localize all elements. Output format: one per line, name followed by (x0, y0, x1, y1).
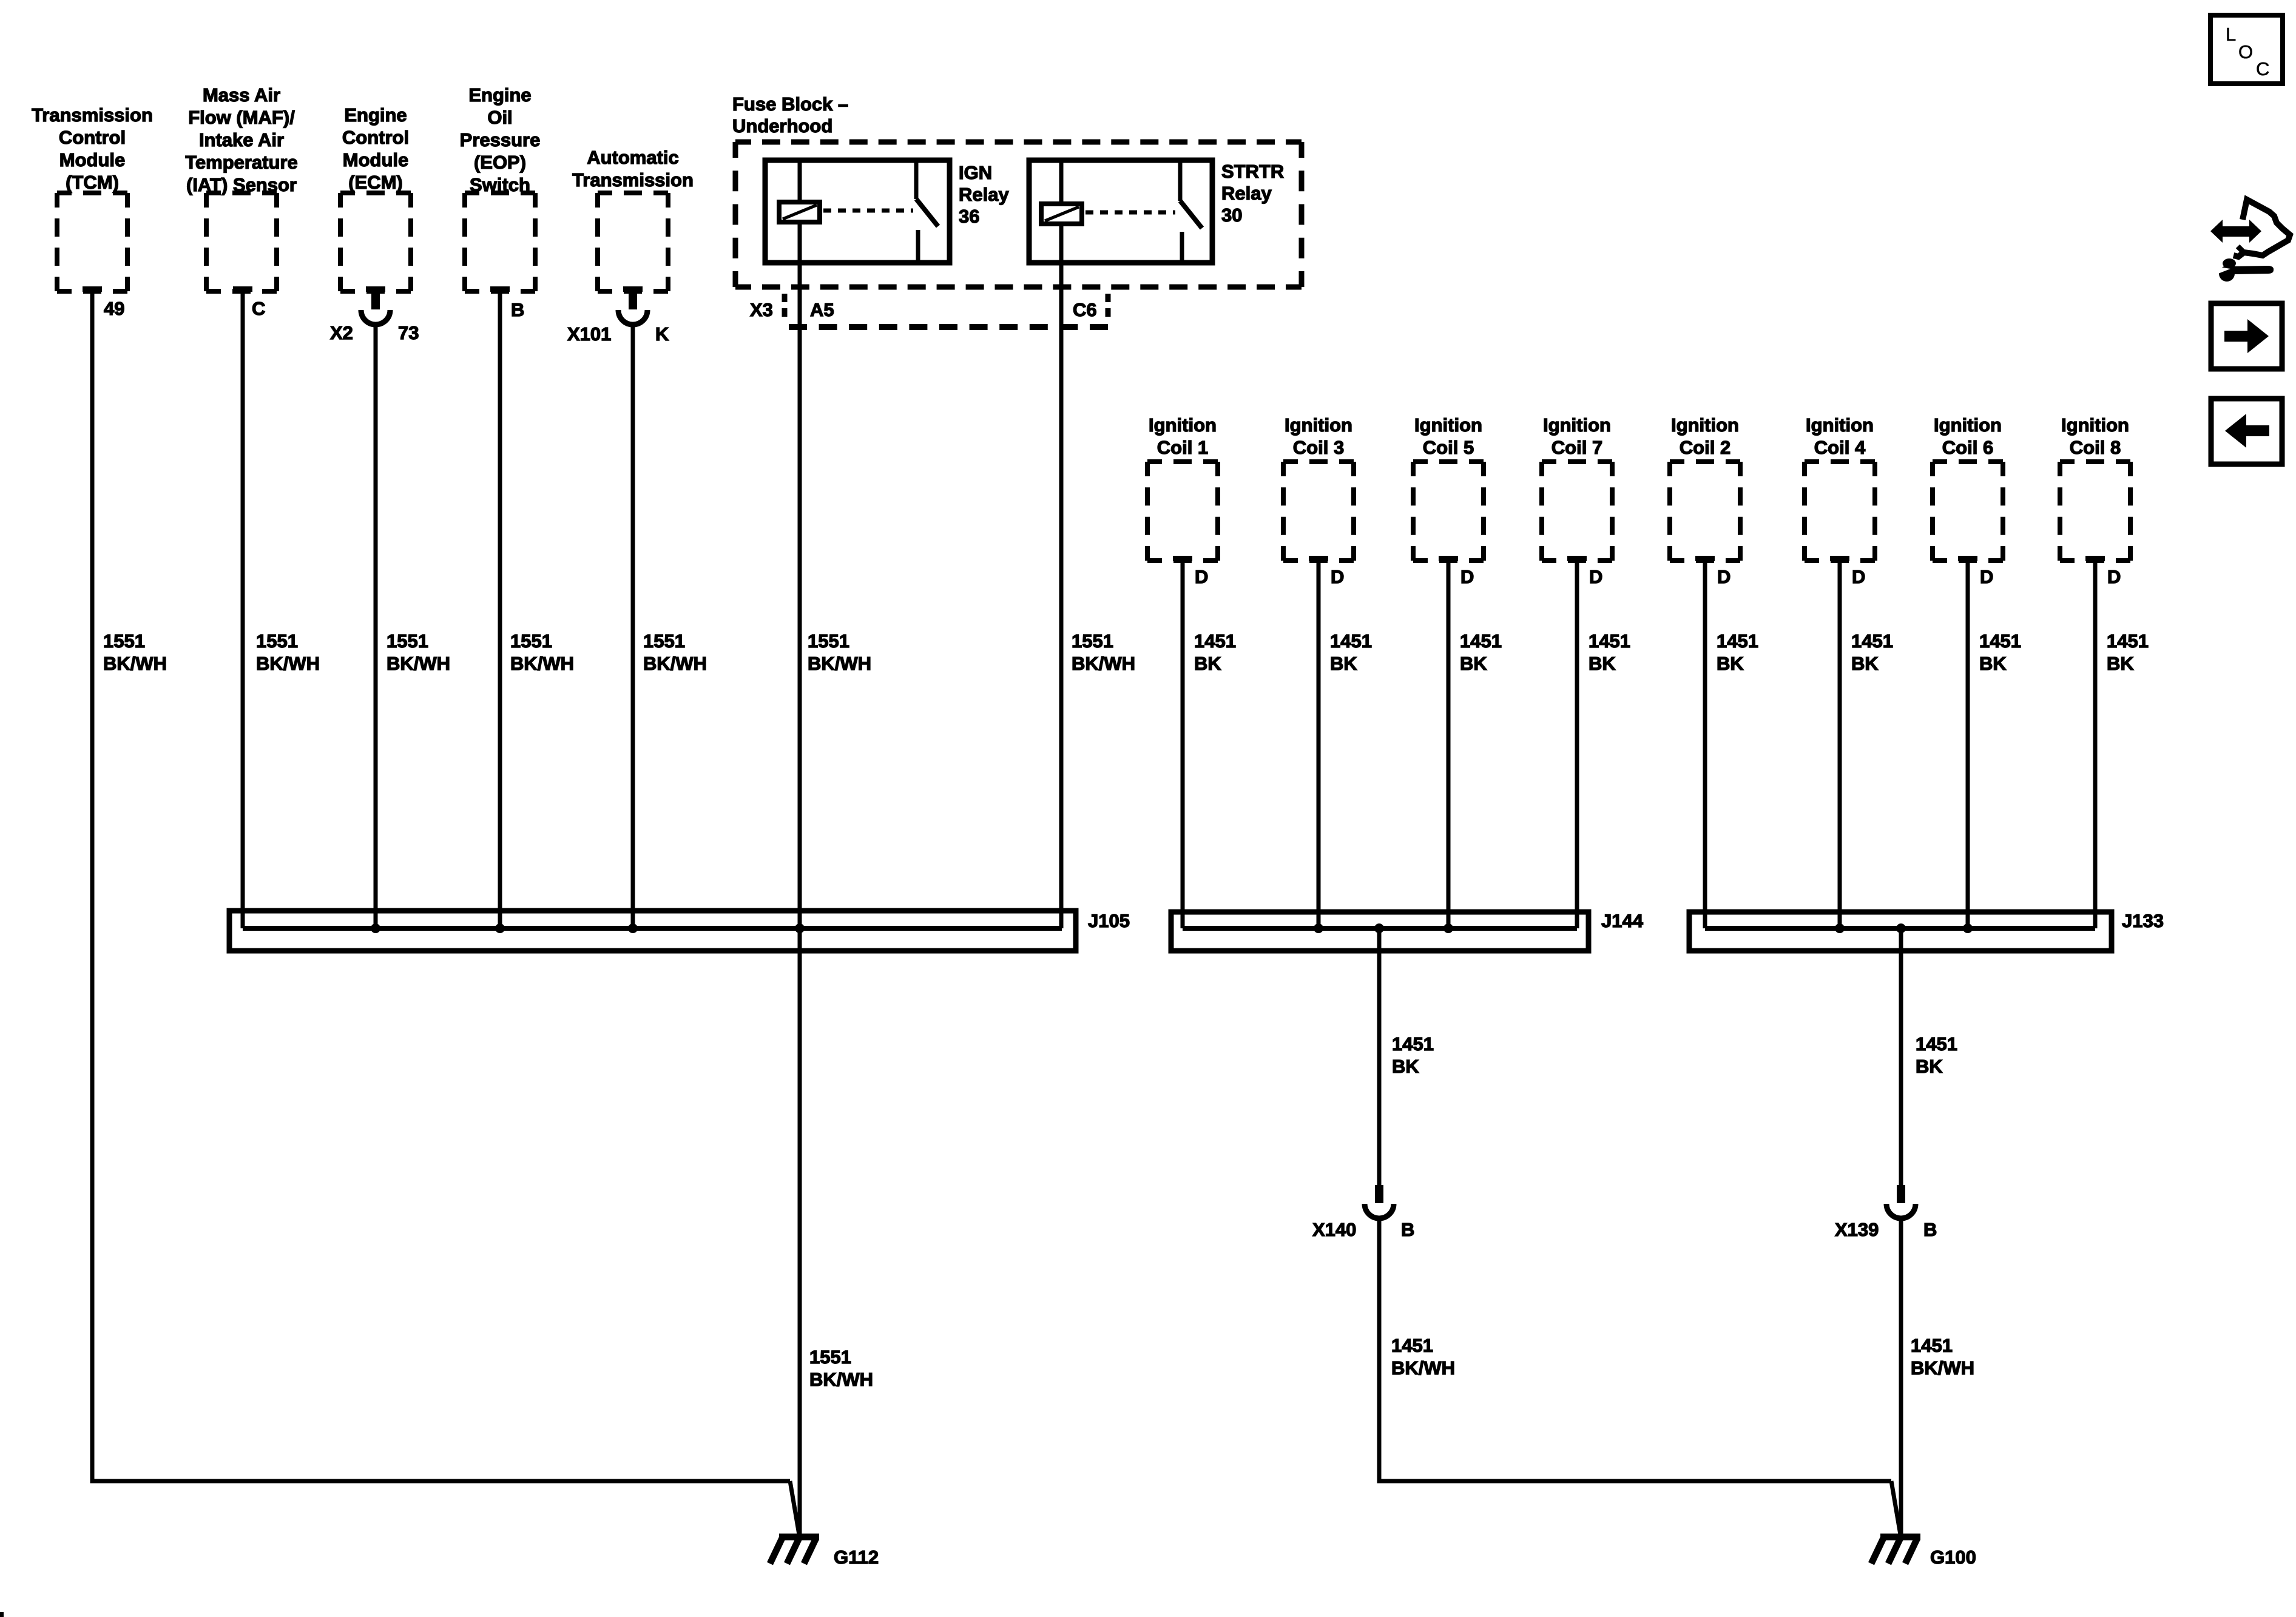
wire AT X101-K to J105 (1551 BK/WH) (631, 325, 635, 928)
svg-text:Underhood: Underhood (732, 115, 832, 137)
wire MAF pin C to J105 (1551 BK/WH) (241, 291, 245, 928)
svg-text:1551: 1551 (510, 630, 552, 652)
Ignition Coil 8 pin D (2085, 556, 2105, 561)
svg-text:K: K (655, 323, 669, 345)
wire Ignition Coil 5 pin D to bus (1451 BK) (1447, 561, 1451, 928)
svg-text:Engine: Engine (344, 104, 407, 126)
svg-text:Ignition: Ignition (1149, 414, 1217, 436)
STRTR relay coil (1041, 204, 1082, 224)
svg-text:G112: G112 (834, 1547, 879, 1568)
connector X139 pin B (1835, 1185, 1937, 1240)
stray mark bottom left (0, 1612, 4, 1617)
svg-text:C6: C6 (1073, 299, 1097, 320)
Ignition Coil 1 box (1149, 414, 1217, 458)
Ignition Coil 8 box (2061, 414, 2129, 458)
svg-text:J105: J105 (1088, 910, 1130, 931)
svg-text:Temperature: Temperature (185, 152, 298, 173)
AT dashed box (598, 193, 668, 291)
svg-text:Mass Air: Mass Air (203, 84, 280, 106)
svg-text:X3: X3 (750, 299, 773, 320)
svg-text:(ECM): (ECM) (348, 172, 403, 193)
svg-text:O: O (2238, 41, 2253, 62)
wire J144 to X140 (1451 BK) (1377, 928, 1382, 1185)
junction dots J144 (1314, 923, 1323, 933)
ECM pin bar (366, 286, 385, 292)
svg-text:30: 30 (1221, 204, 1242, 226)
back arrow icon (2211, 399, 2282, 464)
svg-text:BK: BK (1916, 1056, 1943, 1077)
svg-text:BK/WH: BK/WH (510, 653, 574, 674)
wire STRTR relay pin C6 to J105 (1551 BK/WH) (1059, 224, 1064, 928)
svg-text:C: C (2256, 58, 2269, 79)
Automatic Transmission box (572, 147, 694, 191)
svg-text:X101: X101 (567, 323, 611, 345)
MAF dashed box (206, 193, 277, 291)
wire Ignition Coil 8 pin D to bus (1451 BK) (2093, 561, 2098, 928)
forward arrow icon (2211, 303, 2282, 369)
svg-text:BK/WH: BK/WH (1072, 653, 1135, 674)
STRTR relay switch (1178, 160, 1183, 201)
svg-text:D: D (2107, 566, 2121, 587)
svg-text:BK: BK (1460, 653, 1487, 674)
Ignition Coil 6 box (1934, 414, 2002, 458)
Ignition Coil 3 pin D (1309, 556, 1328, 561)
svg-text:BK: BK (1851, 653, 1879, 674)
svg-text:Coil 1: Coil 1 (1157, 437, 1208, 458)
svg-text:B: B (511, 299, 524, 320)
svg-text:B: B (1923, 1219, 1937, 1240)
svg-text:Transmission: Transmission (572, 169, 694, 191)
STRTR relay coil feed (1059, 160, 1064, 204)
wire Ignition Coil 2 pin D to bus (1451 BK) (1703, 561, 1707, 928)
svg-text:X139: X139 (1835, 1219, 1879, 1240)
EOP pin B (490, 286, 510, 292)
hand outline (2234, 200, 2290, 257)
svg-text:1451: 1451 (1916, 1033, 1957, 1055)
svg-text:BK/WH: BK/WH (103, 653, 167, 674)
svg-text:X2: X2 (330, 322, 353, 343)
STRTR relay actuation dashed link (1086, 211, 1175, 215)
svg-text:Pressure: Pressure (460, 129, 541, 150)
svg-text:Relay: Relay (1221, 183, 1272, 204)
svg-text:L: L (2226, 24, 2236, 45)
svg-text:1551: 1551 (103, 630, 145, 652)
svg-text:BK/WH: BK/WH (809, 1369, 873, 1390)
Mass Air Flow (MAF)/Intake Air Temperature (IAT) Sensor box (185, 84, 298, 195)
wire Ignition Coil 3 pin D to bus (1451 BK) (1317, 561, 1321, 928)
Ignition Coil 2 pin D (1695, 556, 1715, 561)
svg-text:Coil 5: Coil 5 (1423, 437, 1474, 458)
svg-text:1551: 1551 (256, 630, 298, 652)
LOC icon box (2210, 15, 2283, 84)
svg-text:1551: 1551 (809, 1346, 851, 1368)
IGN relay switch (914, 160, 919, 199)
svg-text:1451: 1451 (1979, 630, 2021, 652)
svg-text:Transmission: Transmission (32, 104, 153, 126)
svg-text:G100: G100 (1930, 1547, 1976, 1568)
wire Ignition Coil 4 pin D to bus (1451 BK) (1838, 561, 1842, 928)
svg-text:B: B (1401, 1219, 1414, 1240)
svg-text:BK/WH: BK/WH (1391, 1357, 1455, 1379)
Ignition Coil 4 box (1806, 414, 1874, 458)
svg-text:Control: Control (59, 127, 126, 148)
svg-text:Flow (MAF)/: Flow (MAF)/ (188, 107, 295, 128)
svg-text:(EOP): (EOP) (474, 152, 526, 173)
svg-text:1551: 1551 (808, 630, 849, 652)
svg-text:D: D (1980, 566, 1993, 587)
svg-text:(TCM): (TCM) (66, 172, 119, 193)
svg-text:D: D (1589, 566, 1602, 587)
double arrow (2210, 220, 2261, 243)
svg-text:D: D (1852, 566, 1865, 587)
svg-text:Ignition: Ignition (1806, 414, 1874, 436)
ground G100 (1871, 1537, 1976, 1568)
wire J133 to X139 (1451 BK) (1899, 928, 1903, 1185)
svg-text:BK: BK (1330, 653, 1357, 674)
svg-text:1451: 1451 (1194, 630, 1236, 652)
hand with wrench icon (2210, 200, 2290, 282)
svg-text:Oil: Oil (487, 107, 512, 128)
svg-text:BK/WH: BK/WH (808, 653, 871, 674)
svg-text:Ignition: Ignition (1671, 414, 1739, 436)
svg-text:J144: J144 (1601, 910, 1644, 931)
svg-text:IGN: IGN (959, 162, 992, 183)
svg-text:Ignition: Ignition (2061, 414, 2129, 436)
svg-text:BK: BK (1717, 653, 1744, 674)
wire ECM X2-73 to J105 (1551 BK/WH) (374, 325, 378, 928)
Fuse Block dashed outline (735, 142, 1302, 287)
svg-text:1551: 1551 (387, 630, 428, 652)
STRTR Relay 30 box (1029, 160, 1212, 263)
svg-text:D: D (1195, 566, 1208, 587)
connector X140 pin B (1312, 1185, 1414, 1240)
Ignition Coil 7 pin D (1567, 556, 1587, 561)
svg-text:Coil 4: Coil 4 (1814, 437, 1866, 458)
Ignition Coil 4 pin D (1830, 556, 1849, 561)
TCM dashed box (57, 193, 127, 291)
svg-text:BK: BK (1194, 653, 1221, 674)
svg-text:BK/WH: BK/WH (256, 653, 320, 674)
svg-text:D: D (1717, 566, 1730, 587)
svg-text:1451: 1451 (1911, 1335, 1953, 1356)
svg-text:1451: 1451 (1717, 630, 1758, 652)
connector X2 pin 73 (330, 291, 419, 343)
wrench (2223, 258, 2236, 268)
wire Ignition Coil 6 pin D to bus (1451 BK) (1966, 561, 1970, 928)
IGN relay coil feed (798, 160, 802, 202)
splice pack J144 (1171, 912, 1589, 951)
TCM pin 49 (83, 286, 102, 292)
IGN relay coil (779, 202, 820, 222)
svg-text:BK: BK (1589, 653, 1616, 674)
MAF pin C (233, 286, 252, 292)
wire Ignition Coil 1 pin D to bus (1451 BK) (1181, 561, 1185, 928)
svg-text:BK/WH: BK/WH (387, 653, 450, 674)
wire X139 B to G100 (1451 BK/WH) (1899, 1219, 1903, 1534)
svg-text:BK: BK (1392, 1056, 1419, 1077)
Ignition Coil 7 box (1543, 414, 1611, 458)
svg-text:1451: 1451 (1391, 1335, 1433, 1356)
ECM dashed box (340, 193, 411, 291)
svg-text:Module: Module (59, 149, 126, 170)
IGN relay actuation dashed link (823, 209, 913, 213)
wire X140 B to G100 (1451 BK/WH) (1379, 1219, 1891, 1481)
svg-text:BK/WH: BK/WH (1911, 1357, 1974, 1379)
ground G112 (770, 1537, 879, 1568)
svg-text:49: 49 (104, 298, 124, 319)
junction dots J133 (1835, 923, 1845, 933)
svg-text:Automatic: Automatic (587, 147, 679, 168)
svg-text:1451: 1451 (2107, 630, 2149, 652)
wire TCM pin 49 to G112 (1551 BK/WH) (92, 291, 790, 1481)
svg-text:Engine: Engine (468, 84, 531, 106)
svg-text:Module: Module (343, 149, 409, 170)
svg-text:C: C (252, 298, 265, 319)
svg-text:Intake Air: Intake Air (199, 129, 284, 150)
svg-text:Ignition: Ignition (1285, 414, 1352, 436)
svg-text:1451: 1451 (1851, 630, 1893, 652)
IGN Relay 36 box (765, 160, 950, 263)
EOP dashed box (465, 193, 535, 291)
svg-text:Ignition: Ignition (1414, 414, 1482, 436)
Ignition Coil 6 pin D (1958, 556, 1977, 561)
wire Ignition Coil 7 pin D to bus (1451 BK) (1575, 561, 1579, 928)
svg-text:D: D (1460, 566, 1474, 587)
Engine Oil Pressure (EOP) Switch box (460, 84, 541, 195)
svg-text:Coil 7: Coil 7 (1551, 437, 1602, 458)
Ignition Coil 5 box (1414, 414, 1482, 458)
splice pack J133 (1689, 912, 2112, 951)
svg-text:BK/WH: BK/WH (643, 653, 707, 674)
svg-text:1451: 1451 (1589, 630, 1630, 652)
Ignition Coil 2 box (1671, 414, 1739, 458)
svg-text:Coil 3: Coil 3 (1293, 437, 1344, 458)
svg-text:Fuse Block –: Fuse Block – (732, 93, 848, 115)
svg-text:73: 73 (398, 322, 419, 343)
svg-text:Coil 2: Coil 2 (1680, 437, 1730, 458)
svg-text:36: 36 (959, 206, 979, 227)
connector X101 pin K (567, 291, 669, 345)
svg-text:Control: Control (342, 127, 409, 148)
svg-text:STRTR: STRTR (1221, 161, 1284, 182)
svg-text:BK: BK (2107, 653, 2134, 674)
Ignition Coil 3 box (1285, 414, 1352, 458)
wire EOP pin B to J105 (1551 BK/WH) (498, 291, 502, 928)
svg-text:X140: X140 (1312, 1219, 1356, 1240)
AT pin bar (623, 286, 643, 292)
Transmission Control Module (TCM) box (32, 104, 153, 193)
Ignition Coil 5 pin D (1439, 556, 1458, 561)
wire IGN relay pin A5 to J105 and G112 (1551 BK/WH) (798, 222, 802, 1534)
svg-text:Coil 8: Coil 8 (2070, 437, 2121, 458)
svg-text:J133: J133 (2122, 910, 2164, 931)
svg-text:A5: A5 (810, 299, 834, 320)
Engine Control Module (ECM) box (342, 104, 409, 193)
svg-text:1451: 1451 (1392, 1033, 1434, 1055)
svg-text:BK: BK (1979, 653, 2007, 674)
svg-text:1451: 1451 (1330, 630, 1372, 652)
splice pack J105 (229, 911, 1076, 951)
svg-text:1551: 1551 (643, 630, 685, 652)
junction dots J105 (371, 923, 380, 933)
svg-text:1451: 1451 (1460, 630, 1502, 652)
Ignition Coil 1 pin D (1173, 556, 1192, 561)
svg-text:1551: 1551 (1072, 630, 1113, 652)
svg-text:Relay: Relay (959, 184, 1009, 205)
svg-text:Coil 6: Coil 6 (1942, 437, 1993, 458)
svg-text:Ignition: Ignition (1934, 414, 2002, 436)
connector X3 strip (782, 294, 788, 322)
svg-text:Ignition: Ignition (1543, 414, 1611, 436)
svg-text:D: D (1331, 566, 1344, 587)
